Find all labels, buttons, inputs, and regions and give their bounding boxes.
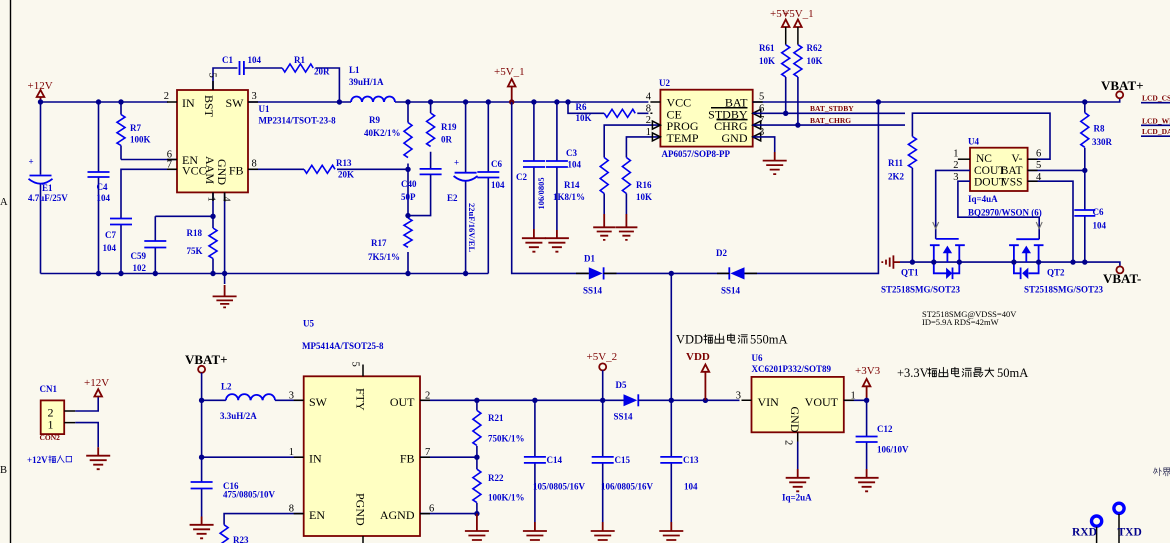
svg-text:C59: C59 <box>131 251 147 261</box>
wire OUT row <box>420 399 624 401</box>
svg-text:100K/1%: 100K/1% <box>488 493 525 503</box>
svg-text:10K: 10K <box>807 56 823 66</box>
capacitor C15 <box>592 400 654 522</box>
svg-text:22uF/16V/EL: 22uF/16V/EL <box>467 203 477 252</box>
svg-text:+5V_2: +5V_2 <box>587 351 618 363</box>
ground C14 <box>523 522 547 543</box>
power +5V_2 terminal <box>587 351 618 400</box>
power +5V_1 <box>494 66 525 102</box>
svg-text:C3: C3 <box>566 148 577 158</box>
wire AGND row <box>420 513 477 515</box>
svg-text:R61: R61 <box>759 43 775 53</box>
svg-text:VDD: VDD <box>676 333 703 347</box>
pin stub U4 NC <box>958 158 970 160</box>
wire GND bus <box>41 273 489 275</box>
svg-text:C6: C6 <box>1093 207 1104 217</box>
note VDD output current <box>676 333 788 347</box>
inductor L2 <box>220 382 275 422</box>
svg-text:50P: 50P <box>401 192 416 202</box>
svg-text:R23: R23 <box>233 535 249 543</box>
svg-text:C2: C2 <box>516 172 527 182</box>
node dot R7 top <box>118 99 123 104</box>
svg-text:7: 7 <box>425 447 430 458</box>
ground under U1 <box>213 285 237 307</box>
wire CHRG row <box>753 124 905 126</box>
svg-text:PGND: PGND <box>354 493 368 526</box>
svg-text:BAT_CHRG: BAT_CHRG <box>810 116 851 125</box>
svg-text:SW: SW <box>309 395 328 409</box>
node dot C59-R18 <box>210 214 215 219</box>
wire TXD <box>1118 514 1120 543</box>
capacitor C1 <box>222 55 262 75</box>
svg-text:10K: 10K <box>636 192 652 202</box>
node dot C4 top <box>96 99 101 104</box>
svg-text:NC: NC <box>976 153 992 165</box>
node dot R62-CHRG <box>795 122 800 127</box>
svg-text:XC6201P332/SOT89: XC6201P332/SOT89 <box>752 364 832 374</box>
pin stubs U1 <box>167 81 258 201</box>
wire U4 pin5 BAT <box>1028 169 1085 171</box>
svg-text:R14: R14 <box>564 180 580 190</box>
resistor R22 <box>473 457 525 513</box>
svg-text:10K: 10K <box>576 113 592 123</box>
svg-text:AGND: AGND <box>380 508 415 522</box>
resistor R21 <box>473 400 525 457</box>
ground U2 <box>763 152 787 174</box>
svg-text:RXD: RXD <box>1072 527 1097 539</box>
svg-text:D2: D2 <box>716 248 727 258</box>
resistor R7 <box>117 102 151 160</box>
wire RXD <box>1096 527 1098 543</box>
chip U4 BQ2970 <box>953 137 1042 218</box>
svg-text:VOUT: VOUT <box>805 395 839 409</box>
svg-text:IN: IN <box>182 96 195 110</box>
svg-text:L1: L1 <box>349 65 360 75</box>
chip U1 MP2314 <box>164 73 336 203</box>
svg-text:8: 8 <box>289 503 294 514</box>
svg-text:U2: U2 <box>659 78 670 88</box>
svg-text:V-: V- <box>1011 153 1022 165</box>
net stub LCD_CS <box>1141 94 1170 103</box>
pin stubs U6 <box>742 399 854 401</box>
svg-text:105/0805/16V: 105/0805/16V <box>533 482 586 492</box>
wire D5 to U6 <box>638 399 739 401</box>
node dot IN <box>199 455 204 460</box>
node dot BAT pin <box>1082 168 1087 173</box>
capacitor C12 <box>856 400 909 469</box>
svg-text:MP5414A/TSOT25-8: MP5414A/TSOT25-8 <box>302 341 384 351</box>
port ring TXD <box>1114 503 1124 513</box>
wire U4 pin2 COUT to QT1 gate <box>936 170 970 239</box>
svg-text:TEMP: TEMP <box>667 131 699 145</box>
capacitor E1 <box>28 157 68 204</box>
svg-text:104: 104 <box>248 55 262 65</box>
node dot +5V_1 <box>509 99 514 104</box>
node dot AGND <box>474 511 479 516</box>
svg-text:+: + <box>29 157 34 167</box>
svg-text:0R: 0R <box>441 135 453 145</box>
pin stubs diodes <box>576 273 757 400</box>
node dot R8 top <box>1082 99 1087 104</box>
chip U5 MP5414A <box>289 319 435 543</box>
resistor R17 <box>368 169 412 273</box>
svg-text:QT2: QT2 <box>1047 268 1065 278</box>
pin stubs U4 <box>1028 159 1038 181</box>
svg-text:20R: 20R <box>314 67 330 77</box>
svg-text:+12V: +12V <box>27 455 48 465</box>
chip U2 AP6057 <box>646 78 765 159</box>
svg-text:BAT: BAT <box>1001 165 1023 177</box>
ground rotated at rail left <box>882 255 900 268</box>
capacitor E2 <box>447 102 478 274</box>
wire D1 to D2 <box>604 272 730 274</box>
svg-text:102: 102 <box>133 263 147 273</box>
svg-text:SS14: SS14 <box>721 286 741 296</box>
wire U4 pin6 loop <box>912 113 1050 159</box>
capacitor C4 <box>88 172 111 203</box>
sheet border line <box>10 0 12 543</box>
svg-text:R11: R11 <box>888 158 904 168</box>
ground CN1 <box>86 447 110 469</box>
ground R14 <box>593 214 615 240</box>
resistor R9 <box>364 102 412 169</box>
capacitor C59 <box>131 216 214 273</box>
ground C3 <box>545 230 569 252</box>
terminal VBAT+ left <box>185 352 228 400</box>
svg-text:5: 5 <box>1036 160 1041 171</box>
svg-text:Iq=2uA: Iq=2uA <box>782 493 812 503</box>
wire FB row <box>248 168 408 170</box>
wire VDD column <box>670 273 672 400</box>
wire U2 GND pin <box>753 137 775 152</box>
svg-text:106/10V: 106/10V <box>877 445 909 455</box>
svg-text:1: 1 <box>48 418 54 432</box>
node dots C2 C3 R6 <box>531 99 536 104</box>
ground C15 <box>591 522 615 543</box>
inductor L1 <box>349 65 395 102</box>
svg-text:1: 1 <box>206 197 217 202</box>
svg-text:VCC: VCC <box>182 163 207 177</box>
terminal VBAT+ <box>1101 78 1144 98</box>
pin stubs U5 <box>294 400 430 513</box>
chip U6 XC6201 <box>736 353 856 445</box>
svg-text:R1: R1 <box>294 55 305 65</box>
wire CN1 pin1 to gnd <box>75 423 98 448</box>
pin stubs CN1 <box>64 411 75 423</box>
svg-text:BAT_STDBY: BAT_STDBY <box>810 104 854 113</box>
resistor R13 <box>304 158 354 180</box>
wire EN <box>121 159 177 161</box>
svg-text:100K: 100K <box>130 135 151 145</box>
svg-text:L2: L2 <box>221 382 232 392</box>
wire U6 GND <box>797 442 799 470</box>
svg-text:FB: FB <box>400 451 415 465</box>
svg-text:C12: C12 <box>877 424 893 434</box>
svg-text:BST: BST <box>202 95 216 118</box>
node dot R61-STDBY <box>783 111 788 116</box>
resistor R18 <box>187 192 218 273</box>
svg-text:2: 2 <box>164 91 169 102</box>
wire E1 column <box>40 102 42 274</box>
resistor R19 <box>427 102 457 169</box>
svg-text:EN: EN <box>309 508 325 522</box>
ground U6 <box>786 469 810 491</box>
note +12V input <box>27 455 72 465</box>
node dot FB junction <box>405 167 410 172</box>
note outside world <box>1153 468 1170 476</box>
capacitor C6 <box>477 102 505 274</box>
resistor R23 <box>220 525 249 543</box>
resistor R14 <box>553 125 660 214</box>
node dot FB <box>474 455 479 460</box>
svg-text:4: 4 <box>646 92 652 103</box>
svg-text:E1: E1 <box>42 183 53 193</box>
node dot C40 junction <box>405 213 410 218</box>
svg-text:6: 6 <box>429 503 434 514</box>
svg-text:Iq=4uA: Iq=4uA <box>968 194 998 204</box>
node dot E2 bus <box>463 271 468 276</box>
svg-text:U4: U4 <box>968 137 979 147</box>
svg-text:D1: D1 <box>584 254 595 264</box>
wire FB row <box>420 456 477 458</box>
svg-text:VDD: VDD <box>686 351 710 363</box>
svg-text:U1: U1 <box>259 104 270 114</box>
wire GND pin4 column <box>224 192 226 284</box>
ground C12 <box>855 469 879 491</box>
svg-text:3: 3 <box>289 391 294 402</box>
svg-text:SS14: SS14 <box>583 286 603 296</box>
diode D5 SS14 <box>614 380 639 422</box>
wire to L2 <box>202 399 304 401</box>
node dot L2 <box>199 398 204 403</box>
pin stub U6 GND <box>797 432 799 441</box>
svg-text:75K: 75K <box>187 246 203 256</box>
svg-text:VBAT+: VBAT+ <box>1101 78 1144 93</box>
svg-text:E2: E2 <box>447 193 458 203</box>
wire BST loop <box>213 68 339 102</box>
svg-text:104: 104 <box>491 180 505 190</box>
svg-text:5: 5 <box>350 362 361 367</box>
svg-text:104: 104 <box>1093 221 1107 231</box>
svg-text:5: 5 <box>759 92 764 103</box>
svg-text:50mA: 50mA <box>997 366 1028 380</box>
node dot R1-SW <box>337 99 342 104</box>
svg-text:ST2518SMG/SOT23: ST2518SMG/SOT23 <box>881 285 961 295</box>
svg-text:GND: GND <box>722 131 748 145</box>
wire VCC to C7 <box>121 169 177 273</box>
node dot VDD stem <box>703 398 708 403</box>
svg-text:4: 4 <box>221 197 232 203</box>
svg-text:R18: R18 <box>187 228 203 238</box>
capacitor C7 <box>103 219 133 254</box>
terminal VBAT- <box>1103 266 1141 286</box>
svg-text:R22: R22 <box>488 473 504 483</box>
transistor QT1 <box>881 239 965 295</box>
svg-text:+12V: +12V <box>84 377 109 389</box>
power +12V at CN1 <box>84 377 109 397</box>
svg-text:+5V_1: +5V_1 <box>494 66 525 78</box>
svg-text:R19: R19 <box>441 122 457 132</box>
wire CN1 pin2 to +12V <box>75 397 98 412</box>
svg-text:C13: C13 <box>683 455 699 465</box>
wire BAT row <box>753 98 1120 102</box>
node dot BAT rail <box>876 99 881 104</box>
svg-text:U6: U6 <box>752 353 763 363</box>
svg-text:106/0805: 106/0805 <box>536 177 546 209</box>
svg-text:475/0805/10V: 475/0805/10V <box>223 490 276 500</box>
resistor R6 <box>568 102 648 123</box>
connector CN1 <box>40 384 65 442</box>
node dot bus R17 <box>405 271 410 276</box>
svg-text:QT1: QT1 <box>901 268 919 278</box>
power +3V3 <box>855 365 881 400</box>
svg-text:GND: GND <box>788 407 802 433</box>
svg-text:VBAT+: VBAT+ <box>185 352 228 367</box>
svg-text:SW: SW <box>226 96 245 110</box>
svg-text:TXD: TXD <box>1118 527 1142 539</box>
svg-text:750K/1%: 750K/1% <box>488 434 525 444</box>
svg-text:CON2: CON2 <box>40 433 61 442</box>
svg-text:AP6057/SOP8-PP: AP6057/SOP8-PP <box>662 149 731 159</box>
node dot VDD junction <box>669 271 674 276</box>
net stub LCD_WR <box>1141 116 1170 125</box>
note 3.3V output current <box>897 366 1028 380</box>
node dots SW rail <box>405 99 410 104</box>
svg-text:2K2: 2K2 <box>888 172 905 182</box>
svg-text:C6: C6 <box>491 159 502 169</box>
wire STDBY row <box>753 112 905 114</box>
svg-text:3.3uH/2A: 3.3uH/2A <box>220 411 257 421</box>
svg-text:10K: 10K <box>759 56 775 66</box>
svg-text:8: 8 <box>646 103 651 114</box>
svg-text:LCD_WR: LCD_WR <box>1142 116 1170 125</box>
svg-text:FTY: FTY <box>354 388 368 411</box>
svg-text:C1: C1 <box>222 55 233 65</box>
svg-text:SS14: SS14 <box>614 412 634 422</box>
svg-text:330R: 330R <box>1092 137 1113 147</box>
capacitor C2 <box>516 102 546 229</box>
svg-text:R21: R21 <box>488 413 504 423</box>
svg-text:R8: R8 <box>1094 124 1105 134</box>
transistor QT2 <box>1009 239 1103 294</box>
svg-text:IN: IN <box>309 451 322 465</box>
ground C2 <box>522 229 546 252</box>
svg-text:VSS: VSS <box>1001 176 1022 188</box>
svg-text:550mA: 550mA <box>750 333 788 347</box>
wire U4 pin3 DOUT to QT2 gate <box>958 181 1039 239</box>
svg-text:1: 1 <box>289 447 294 458</box>
note ST2518SMG characteristics <box>922 309 1017 327</box>
svg-text:ID=5.9A RDS=42mW: ID=5.9A RDS=42mW <box>922 317 999 327</box>
svg-text:39uH/1A: 39uH/1A <box>349 77 384 87</box>
svg-text:104: 104 <box>103 243 117 253</box>
svg-text:D5: D5 <box>616 380 627 390</box>
power +12V <box>28 80 53 102</box>
ground AGND <box>465 514 489 543</box>
resistor R62 <box>794 43 823 125</box>
wire VOUT <box>844 399 867 401</box>
svg-text:2: 2 <box>646 115 651 126</box>
svg-text:C40: C40 <box>401 179 417 189</box>
node dots QT2 rail <box>1011 259 1016 264</box>
wire SW output <box>248 101 648 103</box>
svg-text:BQ2970/WSON (6): BQ2970/WSON (6) <box>968 208 1042 218</box>
svg-text:C4: C4 <box>97 182 108 192</box>
svg-text:5: 5 <box>207 73 218 78</box>
diode D2 SS14 <box>716 248 745 296</box>
capacitor C16 <box>191 457 276 516</box>
svg-text:7K5/1%: 7K5/1% <box>368 252 400 262</box>
wire IN row <box>202 456 304 458</box>
wire EN row <box>224 514 304 525</box>
svg-text:C14: C14 <box>547 455 563 465</box>
svg-text:R13: R13 <box>336 158 352 168</box>
capacitor C3 <box>546 102 582 230</box>
wire VBAT column <box>201 400 203 457</box>
svg-text:2: 2 <box>783 440 794 445</box>
svg-text:R6: R6 <box>576 102 587 112</box>
svg-text:MP2314/TSOT-23-8: MP2314/TSOT-23-8 <box>259 116 337 126</box>
node dot C13 junction <box>669 398 674 403</box>
svg-text:GND: GND <box>215 159 229 185</box>
svg-text:104: 104 <box>568 160 582 170</box>
svg-text:2: 2 <box>953 160 958 171</box>
svg-text:B: B <box>0 465 7 476</box>
svg-text:3: 3 <box>252 91 257 102</box>
svg-text:U5: U5 <box>303 319 314 329</box>
resistor R16 <box>622 137 660 214</box>
wire U4 pin4 VSS <box>1028 181 1073 262</box>
diode D1 SS14 <box>583 254 604 296</box>
svg-text:+: + <box>454 158 459 168</box>
node dots QT1 <box>910 259 915 264</box>
svg-text:R9: R9 <box>369 115 380 125</box>
resistor R8 <box>1081 102 1113 170</box>
capacitor C13 <box>660 400 699 522</box>
resistor R61 <box>759 43 790 113</box>
port ring RXD <box>1092 516 1102 526</box>
net stub LCD_DAT <box>1141 127 1170 136</box>
node dots on bus <box>96 271 101 276</box>
svg-text:8: 8 <box>252 158 257 169</box>
node dots OUT row <box>474 398 479 403</box>
ground R16 <box>615 214 637 240</box>
svg-text:C15: C15 <box>615 455 631 465</box>
svg-text:A: A <box>0 197 8 208</box>
svg-text:FB: FB <box>229 163 244 177</box>
capacitor C40 <box>401 169 442 216</box>
svg-text:ST2518SMG/SOT23: ST2518SMG/SOT23 <box>1024 285 1104 295</box>
wire C4 column <box>98 102 100 274</box>
svg-text:+3.3V: +3.3V <box>897 366 929 380</box>
svg-text:VIN: VIN <box>758 395 780 409</box>
svg-text:4.7uF/25V: 4.7uF/25V <box>28 193 68 203</box>
svg-text:R16: R16 <box>636 180 652 190</box>
svg-text:40K2/1%: 40K2/1% <box>364 128 401 138</box>
svg-text:104: 104 <box>97 193 111 203</box>
arrow on QT2 gate <box>1036 222 1042 229</box>
svg-text:1K8/1%: 1K8/1% <box>553 192 585 202</box>
svg-text:C7: C7 <box>105 230 116 240</box>
power VDD <box>686 351 710 400</box>
resistor R1 <box>282 55 330 77</box>
arrow on QT1 gate <box>933 222 939 229</box>
wire +5V_1 drop to D1 <box>512 102 589 273</box>
svg-text:R17: R17 <box>371 238 387 248</box>
svg-text:106/0805/16V: 106/0805/16V <box>601 482 654 492</box>
resistor R11 <box>888 137 916 263</box>
svg-text:R7: R7 <box>130 123 141 133</box>
